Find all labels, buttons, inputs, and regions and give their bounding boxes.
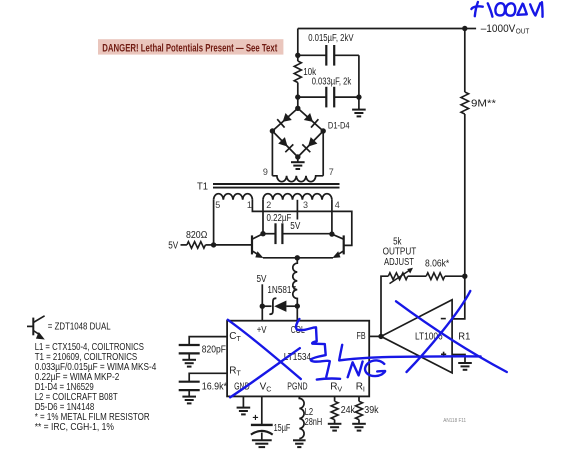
capacitor 0.015uF 2kV: [298, 33, 359, 66]
resistor 820ohm: [181, 230, 214, 248]
inductor L2 28nH: [299, 396, 322, 438]
ground 39k: [352, 424, 366, 431]
svg-text:0.22µF: 0.22µF: [267, 213, 292, 224]
capacitor 820pF: [179, 344, 226, 355]
wire output column: [464, 29, 466, 277]
resistor 24k: [331, 396, 356, 423]
wire bridge to secondary pin 9: [271, 131, 273, 176]
node feedback divider: [462, 274, 467, 279]
svg-text:4: 4: [335, 200, 340, 210]
svg-text:= ZDT1048 DUAL: = ZDT1048 DUAL: [48, 321, 111, 332]
wire 5V to +V pin: [261, 284, 263, 320]
handwriting L and line to op-amp: [339, 345, 480, 361]
handwriting X over LT1534: [228, 320, 301, 398]
label R1: [458, 331, 471, 342]
svg-text:5V: 5V: [290, 221, 300, 232]
resistor 16.9k timing: [179, 381, 227, 392]
wire emitters: [263, 257, 333, 259]
ground GND pin: [237, 396, 251, 414]
svg-text:OUT: OUT: [516, 27, 530, 36]
svg-text:15µF: 15µF: [274, 423, 291, 434]
transistor legend ZDT1048: [27, 316, 111, 340]
handwriting X over LT1006: [396, 291, 507, 372]
resistor 39k: [356, 396, 380, 423]
resistor 10k: [294, 55, 317, 97]
ground L2: [293, 440, 306, 447]
svg-text:PGND: PGND: [287, 382, 307, 393]
svg-text:9: 9: [263, 167, 268, 177]
capacitor 0.033uF 2k: [298, 55, 359, 107]
wire pin 4 to Q2 collector: [331, 200, 333, 234]
transformer T1 secondary winding pins 9-7: [263, 167, 334, 182]
label 5V supply: [257, 274, 267, 285]
resistor 8.06k: [408, 259, 465, 280]
ground 820pF: [182, 353, 196, 366]
svg-text:1: 1: [247, 200, 252, 210]
ground 16.9k: [182, 390, 196, 403]
transistor Q2: [332, 234, 344, 258]
svg-text:3: 3: [303, 200, 308, 210]
svg-text:R1: R1: [458, 331, 471, 342]
svg-text:** = IRC, CGH-1, 1%: ** = IRC, CGH-1, 1%: [35, 422, 114, 433]
svg-text:24k: 24k: [341, 405, 356, 416]
svg-text:ADJUST: ADJUST: [384, 257, 414, 268]
svg-text:820pF: 820pF: [202, 344, 226, 355]
ground 24k: [328, 424, 342, 431]
wire pin 1 to Q2 base: [252, 200, 351, 246]
svg-text:5: 5: [215, 200, 220, 210]
node -1000V output: [462, 26, 476, 31]
op-amp U2 LT1006: [381, 300, 452, 373]
wire non-inverting input to ground: [452, 355, 472, 370]
wire RT pin: [189, 373, 227, 381]
svg-text:7: 7: [329, 167, 334, 177]
node Q1 collector: [260, 231, 265, 236]
svg-text:2: 2: [266, 200, 271, 210]
svg-text:+: +: [252, 412, 258, 424]
handwriting +1000V annotation: [471, 2, 542, 17]
svg-text:GND: GND: [234, 382, 250, 393]
wire op-amp output to FB: [381, 276, 388, 336]
svg-text:D1-D4: D1-D4: [328, 120, 350, 131]
transformer T1 primary winding pins 5-1: [214, 194, 253, 211]
wire top output rail: [298, 29, 465, 56]
diode 1N5817: [262, 285, 297, 314]
node Q2 collector: [329, 231, 334, 236]
wire pin 5 to base node: [213, 200, 215, 245]
ground bridge: [291, 157, 305, 169]
svg-text:0.015µF, 2kV: 0.015µF, 2kV: [308, 33, 354, 44]
capacitor 0.22uF: [263, 213, 332, 244]
node filter bottom: [295, 94, 362, 99]
handwriting NG: [348, 360, 385, 377]
node COL: [295, 303, 300, 320]
svg-text:16.9k*: 16.9k*: [202, 381, 227, 392]
capacitor 15uF: [251, 396, 291, 434]
ground 15uF: [252, 433, 272, 448]
svg-text:T1: T1: [197, 181, 208, 192]
node emitter center: [295, 255, 300, 260]
inductor emitter to COL: [293, 258, 298, 306]
transformer T1 core: [213, 184, 340, 188]
wire CT pin: [189, 337, 227, 345]
op-amp U1 LT1534 regulator box: [227, 321, 369, 397]
svg-text:28nH: 28nH: [305, 417, 323, 428]
danger warning banner: [98, 39, 283, 54]
label -1000VOUT: [481, 23, 530, 36]
node +V: [260, 304, 265, 309]
svg-text:9M**: 9M**: [471, 99, 496, 110]
wire inverting input: [452, 276, 465, 319]
transistor Q1: [252, 234, 264, 258]
figure label AN118 F11: [443, 418, 466, 424]
resistor 9M**: [461, 92, 496, 114]
node filter top: [295, 53, 300, 58]
svg-text:0.033µF, 2k: 0.033µF, 2k: [312, 77, 352, 88]
svg-text:–1000V: –1000V: [481, 23, 516, 35]
label 5V base drive: [168, 240, 178, 251]
svg-text:8.06k*: 8.06k*: [425, 259, 449, 270]
handwriting squiggle over COL: [296, 319, 340, 380]
svg-text:AN118 F11: AN118 F11: [443, 418, 466, 424]
potentiometer 5k output adjust: [383, 236, 417, 283]
label T1: [197, 181, 208, 192]
diode bridge D1-D4: [270, 106, 350, 160]
wire bridge to secondary pin 7: [322, 131, 324, 176]
node base drive: [211, 242, 251, 247]
wire pin 3 center tap to 5V: [290, 200, 300, 232]
svg-text:FB: FB: [357, 331, 366, 342]
wire bridge top: [297, 97, 299, 108]
svg-text:5V: 5V: [168, 240, 178, 251]
wire FB pin: [369, 335, 381, 337]
transformer T1 primary winding pins 2-3-4: [263, 194, 340, 211]
svg-text:DANGER! Lethal Potentials Pres: DANGER! Lethal Potentials Present — See …: [102, 42, 277, 54]
parts list notes: [35, 342, 157, 433]
ground filter: [352, 97, 366, 116]
svg-text:1N5817: 1N5817: [267, 285, 296, 296]
wire pin 2 to Q1 collector: [262, 200, 264, 234]
node FB: [378, 334, 383, 339]
svg-text:+V: +V: [257, 325, 267, 336]
svg-text:820Ω: 820Ω: [186, 230, 208, 241]
svg-text:39k: 39k: [364, 405, 379, 416]
svg-text:5V: 5V: [257, 274, 267, 285]
